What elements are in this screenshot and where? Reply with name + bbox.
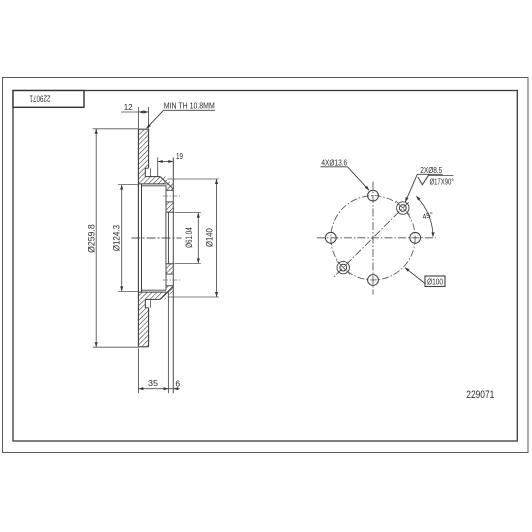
svg-text:229071: 229071 [30,93,51,104]
leg top hatched [161,177,173,190]
label 100 box [425,276,445,287]
countersunk hole top right [399,205,406,212]
dim 12 [137,107,139,129]
outer border frame [3,78,529,453]
dim 61.04 [175,212,201,214]
dim 259.8 [93,128,139,130]
bore tube walls [165,212,167,264]
countersunk hole bottom left [340,264,347,271]
leg left edge [165,186,167,212]
inner border frame [13,91,517,442]
left face chamfer silhouette [141,184,143,292]
45 deg arc [417,197,433,235]
leg bottom hatched [161,286,173,299]
outlines top half [137,129,139,347]
dim 19 [157,158,159,177]
svg-text:35: 35 [148,378,158,388]
svg-text:2XØ8.5: 2XØ8.5 [420,166,442,175]
svg-text:Ø124.3: Ø124.3 [111,225,122,251]
leg bottom/top edges at bore [166,211,174,213]
hatched hat wall top [139,130,148,176]
bolt hole centerlines [163,195,180,197]
axis centerline [132,237,182,239]
dim 35 and 6 [137,349,139,394]
plain holes [368,190,379,201]
hatched flange + fillet bottom [139,293,166,300]
svg-text:6: 6 [175,378,180,388]
svg-text:4XØ13.6: 4XØ13.6 [321,158,347,167]
svg-text:Ø61.04: Ø61.04 [184,227,195,248]
pad lines [141,185,166,187]
svg-text:Ø259.8: Ø259.8 [86,224,97,253]
dim 124.3 [118,184,138,186]
countersink symbol + 17X90 [418,175,429,185]
centerlines [317,237,436,239]
svg-text:229071: 229071 [466,389,494,401]
bolt circle [331,196,415,280]
svg-text:Ø100: Ø100 [427,277,443,286]
svg-text:19: 19 [176,152,183,161]
dim 140 [168,178,219,180]
svg-text:Ø140: Ø140 [204,228,215,247]
svg-text:MIN TH 10.8MM: MIN TH 10.8MM [164,102,215,111]
title box top-left [13,91,84,108]
hatched hat wall bottom [139,300,148,346]
svg-text:Ø17X90°: Ø17X90° [430,178,454,187]
outlines bottom half [138,346,148,348]
bolt hole edges in leg [166,189,173,191]
hatched flange + fillet top [139,177,167,184]
svg-text:12: 12 [124,102,133,112]
